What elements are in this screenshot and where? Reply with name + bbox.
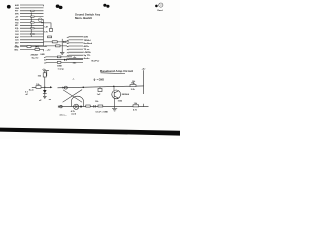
wire pin 15: [20, 45, 44, 47]
wire row A below J1: [20, 46, 47, 48]
resistor R11: [57, 62, 61, 64]
title: Baseband Amp Circuit: [100, 69, 133, 74]
ground symbol mid bus: [60, 52, 64, 54]
resistor R7: [50, 29, 53, 32]
svg-text:CH1: CH1: [15, 31, 19, 33]
svg-text:-t-: -t-: [72, 78, 74, 81]
wire vertical lower-left: [43, 71, 47, 96]
resistor R1: [31, 10, 35, 11]
label GND mid: [57, 65, 62, 67]
label 10k legend: [132, 81, 136, 83]
resistor R19 on rail right: [133, 105, 139, 107]
wire pin 8: [20, 24, 44, 26]
label LM: [45, 26, 48, 28]
+5v supply wire: [143, 70, 145, 94]
label row1 right: [73, 57, 77, 59]
ground stub lower-left of mid rows: [45, 71, 49, 76]
resistor R16 on rail: [98, 105, 103, 107]
label +5v arrow: [45, 50, 51, 52]
label row2 left: [44, 60, 47, 62]
label +5v: [142, 69, 146, 71]
transistor Q3 on rail: [74, 104, 79, 109]
wire mid row 1: [46, 56, 72, 58]
punch hole blob center-right: [103, 4, 109, 8]
svg-text:Sq TTL: Sq TTL: [84, 55, 92, 57]
resistor R4: [31, 28, 35, 29]
svg-text:Audio: Audio: [84, 57, 91, 60]
black separator bar bottom: [0, 128, 180, 136]
J1 pin labels: [15, 4, 20, 48]
diode D3: [43, 90, 47, 93]
resistor R17: [52, 41, 57, 43]
label row3 right: [73, 62, 77, 64]
label stray mark: [49, 99, 52, 101]
label Sq thr: [32, 56, 39, 59]
wire J2 pin 3: [67, 43, 83, 44]
ground symbol lower-left: [43, 96, 47, 98]
label 10k R12: [38, 75, 42, 77]
wire J2 pin 1: [67, 37, 83, 38]
label uF stray: [39, 100, 42, 102]
label 2N3904 Q2: [122, 93, 130, 96]
punch hole blob center-left: [56, 5, 63, 10]
capacitor C2 on rail: [94, 105, 95, 108]
Q2 emitter to ground wire: [114, 99, 116, 109]
wire pin 6: [20, 19, 44, 21]
svg-text:MIC: MIC: [15, 49, 19, 51]
wire horizontal lower-left: [32, 86, 52, 88]
wire row B below J1: [20, 49, 44, 51]
svg-text:GND: GND: [40, 54, 45, 56]
wire tick rail to +5v: [143, 104, 145, 107]
label GND mid bus: [40, 54, 45, 56]
wire pin 14: [20, 42, 44, 44]
wire pin 1: [20, 5, 44, 6]
svg-text:2N5457: 2N5457: [31, 53, 39, 56]
punch hole blob left: [7, 5, 11, 9]
svg-text:LM: LM: [45, 26, 48, 28]
wire mid row 3: [46, 61, 83, 63]
label word below rail: [71, 113, 77, 116]
svg-text:5/2N: 5/2N: [84, 37, 89, 39]
resistor R8: [27, 46, 31, 48]
connector J1 pin rows (left): [20, 5, 44, 46]
mid bus vertical: [61, 39, 63, 52]
resistor R14 on main wire: [130, 85, 136, 87]
label 17k: [44, 31, 48, 33]
junction node Q1 base: [83, 87, 85, 89]
wire pin 5: [20, 16, 44, 18]
label row1 left: [44, 57, 47, 59]
wire pin 10: [20, 30, 44, 32]
svg-text:word: word: [71, 113, 77, 116]
svg-text:GND: GND: [15, 8, 20, 10]
label 1 amp: [58, 69, 65, 71]
label 0.1 uF: [25, 91, 29, 96]
label 0.1uF GND: [96, 111, 109, 113]
junction node Q2 base: [113, 86, 114, 91]
svg-text:GND: GND: [15, 47, 20, 49]
svg-text:CH2: CH2: [15, 34, 19, 36]
label 10k R16: [95, 101, 99, 103]
resistor R5: [31, 33, 35, 34]
svg-text:Baseband Amp Circuit: Baseband Amp Circuit: [100, 69, 133, 73]
label 100k: [118, 101, 123, 103]
svg-text:Rand: Rand: [157, 10, 163, 12]
svg-text:NorPwr: NorPwr: [92, 60, 100, 62]
input jack circle: [63, 86, 68, 89]
svg-text:GND: GND: [57, 65, 62, 67]
diode D2 1N4148: [64, 59, 66, 61]
resistor R3: [31, 22, 35, 23]
wire J2 pin 8: [67, 58, 83, 59]
svg-text:L/MPBt: L/MPBt: [84, 51, 91, 54]
output jack bottom-left: [58, 105, 62, 108]
transistor circle at J1 row 7: [38, 18, 42, 22]
wire J2 pin 7: [67, 55, 83, 56]
wire J2 pin 5: [67, 49, 83, 50]
wire pin 9: [20, 27, 44, 29]
wire pin 3: [20, 10, 44, 12]
svg-text:AUD: AUD: [15, 4, 20, 7]
transistor Q2: [112, 90, 121, 99]
svg-text:1 amp: 1 amp: [58, 69, 65, 71]
svg-text:NorBack: NorBack: [84, 42, 93, 45]
wire to R7 drop: [41, 23, 51, 29]
label 10k R19: [134, 103, 138, 105]
label MIC row B: [15, 49, 19, 51]
resistor R18: [56, 45, 60, 47]
label 4.7k R19: [133, 109, 138, 112]
main wire mid: [58, 86, 144, 88]
resistor R6: [48, 36, 52, 38]
resistor R2: [31, 16, 35, 17]
svg-text:→+5v: →+5v: [45, 50, 51, 52]
legend lead symbol: [72, 78, 74, 81]
wire pin 4: [20, 13, 44, 15]
label 10k R13: [36, 84, 40, 86]
svg-text:0.1uF = GND: 0.1uF = GND: [96, 111, 109, 113]
resistor R12: [43, 73, 46, 77]
svg-text:AVRs: AVRs: [84, 45, 90, 48]
label w/o note: [60, 115, 67, 117]
bus wire inside J1: [30, 13, 32, 38]
label Sq in: [29, 90, 35, 92]
junction node lower-left: [44, 87, 45, 88]
connector J2 pin rows (right): [67, 37, 83, 60]
svg-text:w/o o—: w/o o—: [60, 115, 67, 117]
label GND row A: [15, 47, 20, 49]
logo stamp top right: [155, 3, 163, 12]
label NorPwr: [92, 60, 100, 62]
label +5v small (lower-left circuit): [42, 69, 46, 71]
svg-text:Sq. thr: Sq. thr: [32, 56, 39, 59]
transistor Q1: [63, 90, 84, 107]
junction node on rail: [80, 106, 82, 108]
bus wire right of J1: [43, 20, 45, 47]
wire mid row 2: [46, 59, 83, 61]
bottom rail wire: [60, 106, 149, 108]
label 10k R14: [131, 83, 135, 85]
capacitor C1 branch: [98, 87, 102, 92]
label 1uF C1: [97, 94, 101, 96]
svg-text:-||- = GND: -||- = GND: [93, 79, 104, 82]
arrow right end lower-left wire: [50, 86, 52, 88]
diode D1: [36, 46, 39, 48]
wire pin 11: [20, 33, 44, 35]
ground symbol Q2: [112, 109, 117, 112]
mid wire row upper: [44, 41, 70, 43]
label 2N5457: [31, 53, 39, 56]
svg-text:2N3904: 2N3904: [122, 93, 130, 96]
wire J2 pin 2: [67, 40, 83, 41]
label row3 left: [44, 62, 47, 64]
wire pin 13: [20, 39, 44, 41]
mid wire row lower: [44, 45, 67, 47]
svg-text:TRNKd: TRNKd: [84, 40, 92, 42]
label 1k legend: [133, 83, 136, 85]
wire J2 pin 6: [67, 52, 83, 53]
legend: cap = GND: [93, 79, 104, 82]
wire pin 12: [20, 36, 44, 38]
resistor R13: [36, 86, 41, 89]
resistor R9: [35, 49, 40, 51]
svg-text:Mem. Backlt: Mem. Backlt: [75, 16, 92, 20]
resistor R10: [57, 56, 61, 58]
wire pin 7: [20, 21, 44, 23]
wire pin 2: [20, 7, 44, 9]
svg-text:TX on: TX on: [84, 49, 91, 51]
label R14 below: [131, 89, 136, 91]
wire J2 pin 4: [67, 46, 83, 47]
diode D4: [63, 41, 66, 43]
resistor R15 on rail: [86, 105, 90, 107]
label 4.7k below rail: [71, 110, 76, 113]
J2 pin labels: [84, 37, 93, 61]
svg-text:Sq in: Sq in: [29, 90, 35, 92]
